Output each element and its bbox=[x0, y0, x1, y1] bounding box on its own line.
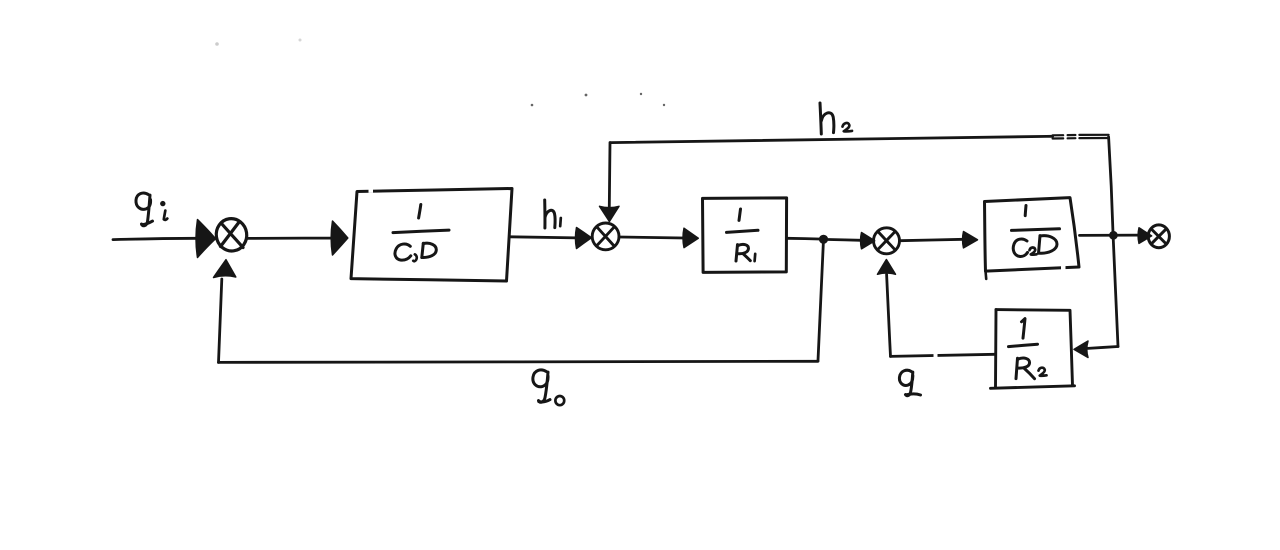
wire C2D output through node to S4 bbox=[1080, 234, 1141, 237]
node on R1 output bbox=[819, 235, 828, 244]
summing junction S3 bbox=[874, 228, 900, 254]
block 1/R2 bbox=[991, 310, 1075, 389]
label h1 bbox=[545, 200, 561, 228]
arrowhead into S3 bbox=[861, 233, 875, 249]
wire q0 vertical right bbox=[818, 239, 824, 360]
arrowhead into R1 bbox=[683, 228, 698, 247]
wire R1 to node Q0 bbox=[787, 237, 824, 241]
arrowhead into summer S1 bbox=[196, 220, 216, 258]
wire C1D to summer S2, node h1 bbox=[510, 237, 577, 238]
wire h2 feedback horizontal bbox=[611, 136, 1053, 142]
wire node Q0 to S3 bbox=[829, 238, 862, 242]
arrowhead into summer S2 bbox=[575, 228, 591, 249]
arrowhead down into S2 bbox=[600, 206, 620, 221]
block 1/C2D bbox=[985, 198, 1080, 279]
label q bbox=[899, 370, 920, 395]
label h2 bbox=[820, 103, 852, 134]
value label 1/C1D bbox=[393, 205, 449, 262]
wire h2 retraced segments bbox=[1053, 135, 1109, 139]
arrowhead up into S1 bbox=[214, 260, 236, 278]
summing junction S4 bbox=[1148, 225, 1169, 248]
arrowhead into S4 bbox=[1138, 228, 1152, 244]
value label 1/R1 bbox=[727, 209, 759, 261]
value label 1/C2D bbox=[1012, 206, 1060, 257]
white paper gaps bbox=[369, 188, 1066, 358]
summing junction S2 bbox=[592, 223, 619, 250]
wire S1 to block C1D bbox=[247, 237, 333, 240]
wire q0 vertical left bbox=[219, 279, 222, 362]
value label 1/R2 bbox=[1009, 319, 1047, 379]
block 1/R1 bbox=[703, 198, 787, 273]
label q0 bbox=[533, 370, 564, 405]
arrowhead into R2 bbox=[1074, 341, 1088, 358]
node on C2D output bbox=[1109, 231, 1118, 240]
arrowhead into block C1D bbox=[331, 221, 348, 255]
wire into R2 bbox=[1088, 347, 1118, 349]
block 1/C1D bbox=[351, 189, 512, 282]
wire R2 output to corner bbox=[891, 354, 995, 356]
arrowhead into C2D bbox=[963, 232, 978, 248]
wire q0 horizontal bbox=[219, 361, 819, 362]
wire S2 to R1 bbox=[619, 237, 684, 238]
wire q vertical up into S3 bbox=[887, 275, 891, 357]
arrowhead up into S3 bbox=[878, 260, 896, 275]
wire right vertical from h2 corner through node to R2 bbox=[1109, 137, 1118, 347]
wire S3 to C2D bbox=[900, 239, 964, 240]
summing junction S1 bbox=[214, 217, 249, 253]
label qi bbox=[136, 193, 167, 226]
wire input qi bbox=[113, 238, 198, 239]
wire h2 feedback drop into S2 bbox=[608, 143, 612, 207]
faint pencil specks bbox=[215, 39, 665, 107]
